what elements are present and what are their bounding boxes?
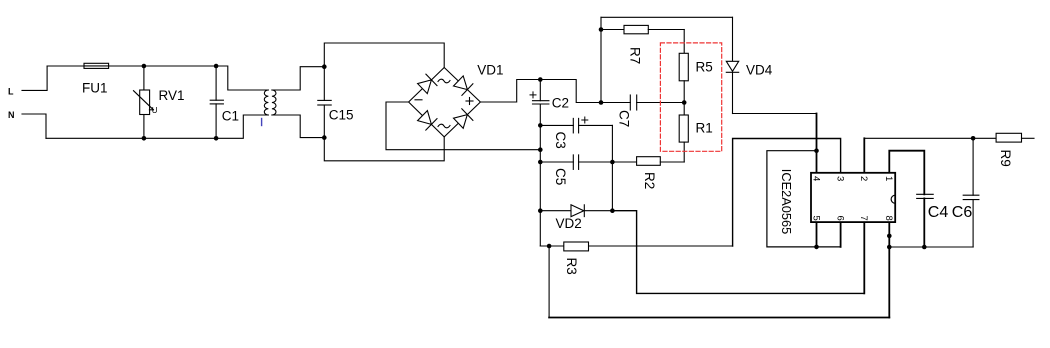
svg-text:C2: C2 bbox=[552, 95, 569, 110]
wire C15 to bridge bottom bbox=[324, 137, 444, 161]
transformer T1 primary winding bbox=[264, 90, 268, 115]
svg-text:R1: R1 bbox=[696, 120, 713, 135]
capacitor C6 bbox=[952, 138, 979, 247]
svg-text:C6: C6 bbox=[952, 204, 973, 221]
capacitor C3 bbox=[540, 117, 612, 149]
node junction C5 right bbox=[610, 160, 615, 165]
diode VD1 top-left bbox=[418, 74, 437, 94]
resistor R3 bbox=[540, 242, 588, 275]
svg-text:C3: C3 bbox=[553, 132, 568, 149]
wire C2 bottom rail bbox=[540, 104, 564, 246]
wire bridge positive output bbox=[480, 80, 601, 103]
wire pin4 vertical bbox=[816, 114, 818, 173]
wire pin7 vertical bbox=[863, 222, 865, 293]
svg-text:8: 8 bbox=[883, 216, 894, 221]
svg-text:VD4: VD4 bbox=[746, 62, 773, 77]
resistor R1 bbox=[679, 115, 713, 162]
capacitor C4 bbox=[917, 194, 949, 247]
wire N input bbox=[22, 114, 46, 138]
diode VD1 bottom-right bbox=[454, 109, 473, 129]
svg-text:3: 3 bbox=[834, 176, 845, 181]
wire pin3 net bbox=[733, 139, 841, 247]
node junction RV1 top bbox=[142, 64, 147, 69]
svg-text:FU1: FU1 bbox=[82, 81, 108, 96]
capacitor C1 bbox=[210, 66, 239, 138]
bridge minus sign bbox=[415, 99, 422, 101]
wire ground drop to bottom rail bbox=[548, 246, 550, 318]
svg-text:R2: R2 bbox=[642, 172, 657, 189]
svg-text:C15: C15 bbox=[329, 108, 354, 123]
svg-text:4: 4 bbox=[810, 176, 821, 181]
svg-text:U: U bbox=[152, 106, 158, 115]
node junction VD2 right bbox=[610, 208, 615, 213]
svg-text:VD2: VD2 bbox=[556, 216, 582, 231]
node junction C15 top bbox=[322, 64, 327, 69]
svg-text:C1: C1 bbox=[222, 109, 239, 124]
wire VD2 to pin7 bbox=[612, 211, 864, 294]
diode VD1 bottom-left bbox=[418, 111, 437, 131]
bridge plus sign bbox=[466, 98, 473, 105]
wire bottom AC rail bbox=[46, 115, 268, 138]
fuse FU1 bbox=[82, 63, 109, 95]
wire C15 to bridge top bbox=[324, 43, 444, 68]
node junction positive rail / R7 bbox=[599, 100, 604, 105]
capacitor C7 bbox=[601, 95, 684, 127]
node junction C2 top bbox=[538, 77, 543, 82]
svg-text:6: 6 bbox=[834, 216, 845, 221]
node junction R7 left bbox=[599, 27, 604, 32]
svg-text:7: 7 bbox=[858, 216, 869, 221]
node junction pin4 / ground loop bbox=[814, 148, 819, 153]
resistor R2 bbox=[612, 157, 684, 190]
wire secondary bottom bbox=[272, 115, 324, 138]
wire bottom ground rail bbox=[549, 317, 889, 319]
node junction C1 bottom bbox=[214, 136, 219, 141]
bridge rectifier VD1 diamond bbox=[409, 68, 481, 137]
svg-text:L: L bbox=[8, 86, 14, 96]
svg-text:N: N bbox=[8, 110, 15, 120]
wire ground loop around IC label bbox=[767, 151, 841, 247]
node junction R5/R1 bbox=[682, 100, 687, 105]
svg-text:1: 1 bbox=[883, 176, 894, 181]
node junction C1 top bbox=[214, 64, 219, 69]
capacitor C2 bbox=[530, 80, 569, 111]
wire secondary top bbox=[272, 67, 324, 90]
node junction R9 / C6 bbox=[971, 136, 976, 141]
wire R3 rail bbox=[589, 245, 733, 247]
capacitor C15 bbox=[318, 67, 354, 138]
svg-text:2: 2 bbox=[858, 176, 869, 181]
wire VD4 to pin4 bbox=[733, 113, 817, 115]
resistor R5 bbox=[679, 30, 713, 116]
svg-text:R7: R7 bbox=[628, 47, 643, 64]
wire bridge negative output bbox=[386, 102, 540, 150]
bridge AC tilde bottom bbox=[438, 124, 450, 128]
diode VD1 top-right bbox=[454, 76, 473, 96]
diode VD4 bbox=[726, 17, 772, 113]
node junction C5 left bbox=[538, 160, 543, 165]
svg-text:5: 5 bbox=[810, 216, 821, 221]
wire pin5 stub bbox=[816, 222, 818, 247]
wire pin8 vertical bbox=[888, 222, 890, 317]
node junction pin8 ground rail bbox=[887, 245, 892, 250]
wire C4/C6 bottom rail bbox=[889, 246, 973, 248]
capacitor C5 bbox=[540, 155, 612, 185]
node junction bridge negative bbox=[538, 147, 543, 152]
wire pin6 stub bbox=[840, 222, 842, 247]
node junction C15 bottom bbox=[322, 135, 327, 140]
svg-text:ICE2A0565: ICE2A0565 bbox=[779, 169, 794, 234]
svg-text:C4: C4 bbox=[928, 204, 949, 221]
diode VD2 bbox=[540, 205, 612, 231]
op-amp U1 IC body ICE2A0565 bbox=[779, 169, 895, 234]
wire pin2 net to R9 bbox=[863, 138, 865, 173]
svg-text:C5: C5 bbox=[553, 168, 568, 185]
wire R7 branch vertical bbox=[600, 17, 602, 102]
svg-text:R5: R5 bbox=[696, 60, 713, 75]
node junction pin5 / loop bbox=[814, 245, 819, 250]
svg-text:RV1: RV1 bbox=[159, 88, 185, 103]
varistor RV1 bbox=[134, 66, 185, 138]
svg-text:R9: R9 bbox=[998, 150, 1013, 167]
node junction R3 left bbox=[547, 244, 552, 249]
wire top AC rail bbox=[47, 66, 268, 90]
red dashed highlight box bbox=[660, 43, 721, 151]
wire C3 right down to C5 bbox=[611, 125, 613, 210]
node junction C3 left bbox=[538, 123, 543, 128]
svg-text:R3: R3 bbox=[564, 258, 579, 275]
svg-text:C7: C7 bbox=[617, 110, 632, 127]
resistor R7 bbox=[601, 25, 684, 64]
node junction VD2 left bbox=[538, 208, 543, 213]
bridge AC tilde top bbox=[438, 79, 450, 83]
transformer T1 secondary winding bbox=[272, 90, 276, 115]
wire pin1 net to C4 bbox=[889, 151, 924, 195]
node junction pin8 upper bbox=[887, 234, 892, 239]
transformer polarity mark bbox=[261, 119, 263, 126]
node junction C4 bottom bbox=[922, 245, 927, 250]
wire L input bbox=[22, 66, 47, 90]
wire top feedback rail bbox=[601, 16, 733, 18]
resistor R9 bbox=[996, 133, 1034, 166]
svg-text:VD1: VD1 bbox=[477, 62, 503, 77]
node junction RV1 bottom bbox=[142, 136, 147, 141]
